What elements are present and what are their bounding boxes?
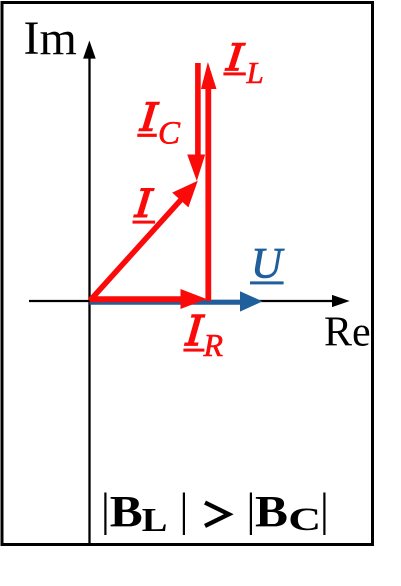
- svg-text:L: L: [142, 501, 168, 538]
- label U: [250, 241, 285, 288]
- svg-text:Re: Re: [324, 310, 371, 356]
- label I_L: [223, 43, 263, 90]
- axis Im (vertical): [83, 41, 96, 544]
- svg-text:R: R: [203, 327, 224, 363]
- axis Re (horizontal): [29, 295, 350, 307]
- vector I_C (red, vertical down): [187, 63, 205, 181]
- vector I_L (red, vertical up): [201, 62, 217, 301]
- svg-text:Im: Im: [24, 12, 77, 65]
- svg-text:B: B: [255, 487, 288, 536]
- vector I (red, diagonal resultant): [90, 181, 198, 301]
- svg-text:C: C: [158, 116, 181, 152]
- label I_R: [183, 314, 223, 363]
- vector I_R (red, horizontal): [90, 289, 207, 309]
- label I_C: [137, 102, 181, 152]
- svg-text:C: C: [288, 501, 321, 538]
- formula |B_L| > |B_C|: [104, 487, 325, 538]
- svg-text:U: U: [251, 241, 285, 288]
- svg-text:L: L: [246, 55, 264, 90]
- label I (resultant): [133, 188, 156, 224]
- svg-text:B: B: [110, 487, 143, 536]
- vector U (blue voltage phasor): [90, 291, 263, 311]
